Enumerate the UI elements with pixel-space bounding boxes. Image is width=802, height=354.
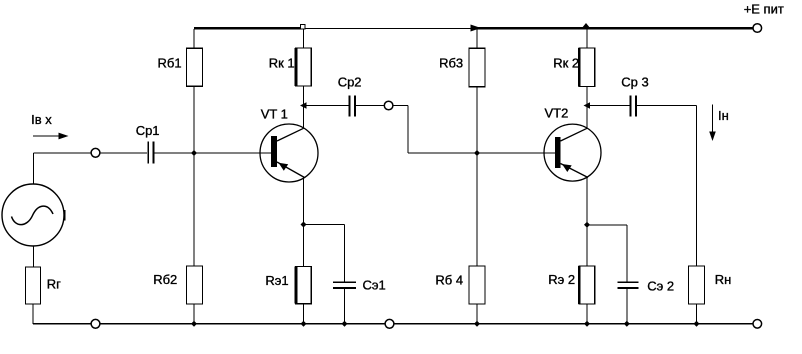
- svg-text:Ср2: Ср2: [338, 74, 362, 89]
- svg-text:Rэ 2: Rэ 2: [548, 272, 575, 287]
- svg-text:Rб1: Rб1: [158, 55, 182, 70]
- svg-text:Rн: Rн: [715, 272, 732, 287]
- svg-text:Rэ1: Rэ1: [265, 273, 288, 288]
- svg-text:Iв х: Iв х: [31, 112, 52, 127]
- svg-text:VT 1: VT 1: [261, 106, 288, 121]
- svg-text:Ср1: Ср1: [136, 123, 160, 138]
- svg-text:Сэ 2: Сэ 2: [647, 279, 674, 294]
- svg-text:Сэ1: Сэ1: [363, 277, 386, 292]
- svg-text:VT2: VT2: [545, 106, 569, 121]
- svg-text:Rк 1: Rк 1: [269, 55, 295, 70]
- svg-text:Rк 2: Rк 2: [553, 55, 579, 70]
- svg-text:Rг: Rг: [47, 276, 61, 291]
- svg-text:+Е пит: +Е пит: [744, 2, 784, 17]
- svg-text:Iн: Iн: [718, 108, 729, 123]
- svg-text:Ср 3: Ср 3: [621, 74, 648, 89]
- svg-text:Rб3: Rб3: [439, 55, 463, 70]
- svg-text:Rб2: Rб2: [153, 272, 177, 287]
- svg-text:Rб 4: Rб 4: [435, 272, 463, 287]
